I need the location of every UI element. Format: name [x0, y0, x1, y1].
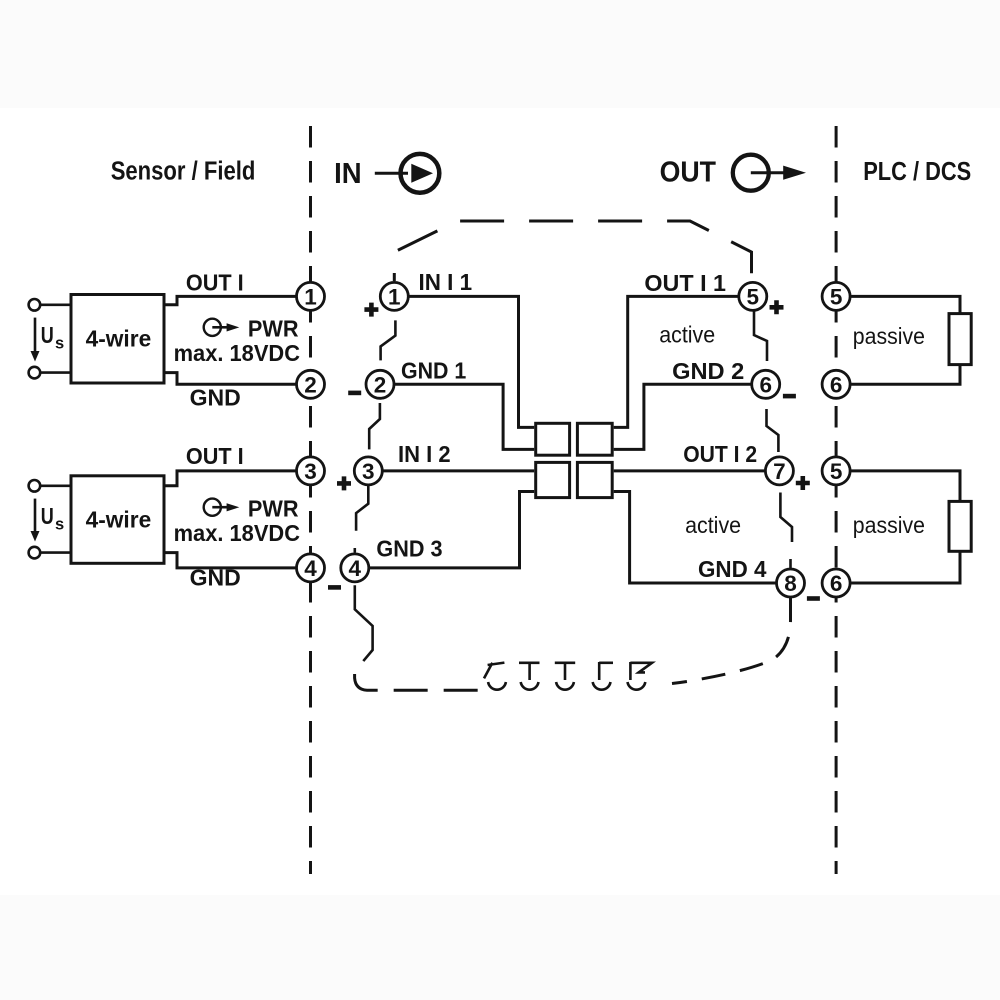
svg-text:6: 6 [759, 372, 772, 397]
svg-text:IN I 1: IN I 1 [419, 269, 473, 295]
svg-text:active: active [685, 512, 741, 538]
svg-text:1: 1 [388, 285, 401, 310]
wire OUT I 2 [614, 469, 766, 472]
polarity + at 5 [770, 300, 784, 314]
svg-text:5: 5 [830, 459, 843, 484]
svg-text:GND: GND [190, 385, 241, 411]
module dashed outline bottom right curve [672, 598, 791, 684]
svg-text:active: active [659, 322, 715, 348]
polarity - at 2 [348, 391, 361, 396]
DIP switch 4 [593, 662, 613, 690]
svg-text:4: 4 [304, 556, 317, 581]
passive loop 2 wires [850, 471, 960, 583]
svg-text:4: 4 [349, 556, 362, 581]
sensor block 1: 4-wire box [71, 295, 164, 384]
svg-text:4-wire: 4-wire [86, 507, 152, 533]
module squiggle 2-3 [369, 403, 380, 449]
svg-text:2: 2 [374, 372, 387, 397]
wire OUT I block1 [164, 296, 297, 304]
svg-text:OUT I: OUT I [186, 269, 244, 295]
svg-text:4-wire: 4-wire [86, 325, 152, 351]
OUT arrow symbol [733, 155, 806, 191]
svg-text:5: 5 [830, 285, 843, 310]
polarity - at 4 [328, 585, 341, 590]
terminal circle out 5 [739, 282, 767, 310]
terminal circle in 3 [354, 457, 382, 485]
terminal circle bottom [29, 547, 41, 559]
svg-text:GND 1: GND 1 [401, 357, 466, 383]
Us arrow [31, 499, 40, 542]
svg-text:passive: passive [853, 323, 925, 349]
svg-text:IN I 2: IN I 2 [398, 441, 451, 467]
terminal wires [40, 303, 71, 306]
wire GND 4 [614, 492, 777, 584]
wire GND block2 [164, 553, 297, 568]
svg-text:6: 6 [830, 372, 843, 397]
wire OUT I block2 [164, 471, 297, 486]
svg-text:3: 3 [362, 459, 375, 484]
module squiggle 7-8 [780, 493, 792, 543]
terminal circle plc 6b [822, 569, 850, 597]
svg-text:s: s [55, 335, 64, 353]
terminal circle out 7 [765, 457, 793, 485]
PWR icon block2 [204, 499, 240, 516]
svg-text:max. 18VDC: max. 18VDC [174, 340, 300, 366]
svg-text:5: 5 [747, 285, 760, 310]
svg-text:OUT I 2: OUT I 2 [683, 441, 757, 467]
terminal circle out 6 [752, 370, 780, 398]
svg-text:OUT I 1: OUT I 1 [644, 270, 726, 296]
svg-text:GND: GND [190, 565, 241, 591]
module squiggle below 4 [355, 585, 373, 661]
resistor 1 [949, 314, 971, 365]
terminal circle outer 3 [297, 457, 325, 485]
svg-text:PWR: PWR [248, 495, 299, 521]
DIP switch 5 [628, 662, 653, 690]
module squiggle below 8 [789, 559, 792, 569]
wire OUT I 1 [614, 296, 739, 427]
module squiggle 1-2 [381, 320, 396, 360]
svg-text:s: s [55, 516, 64, 534]
module squiggle 3-4 [355, 485, 369, 553]
dashed boundary line left [309, 126, 312, 874]
PWR icon block1 [204, 319, 240, 336]
polarity - at 8 [807, 596, 820, 601]
polarity + at 3 [337, 476, 351, 490]
svg-text:U: U [41, 322, 54, 348]
passive loop 1 wires [850, 296, 960, 384]
wire IN I 2 [382, 469, 534, 472]
sensor block 2: 4-wire box [71, 476, 164, 564]
svg-text:IN: IN [334, 158, 362, 190]
svg-text:GND 2: GND 2 [672, 358, 744, 384]
DIP switch 3 [555, 663, 575, 690]
wire IN I 1 [408, 296, 534, 427]
svg-text:OUT: OUT [660, 157, 717, 189]
dashed boundary line right [835, 126, 838, 874]
terminal wires [40, 484, 71, 487]
wire GND 1 [394, 384, 534, 449]
svg-text:7: 7 [773, 459, 786, 484]
module squiggle 5-6 [754, 311, 767, 361]
wire GND 2 [614, 384, 752, 449]
terminal circle in 4 [341, 554, 369, 582]
module dashed outline top [394, 221, 751, 282]
svg-text:GND 4: GND 4 [698, 556, 767, 582]
svg-text:PWR: PWR [248, 316, 299, 342]
terminal circle in 1 [380, 282, 408, 310]
svg-text:max. 18VDC: max. 18VDC [174, 520, 300, 546]
terminal circle outer 4 [297, 554, 325, 582]
polarity - at 6 [783, 394, 796, 399]
terminal circle plc 5b [822, 457, 850, 485]
terminal circle bottom [29, 367, 41, 379]
svg-text:OUT I: OUT I [186, 443, 244, 469]
terminal circle out 8 [777, 569, 805, 597]
isolation barrier symbol [536, 423, 613, 497]
terminal circle outer 2 [297, 370, 325, 398]
wire GND block1 [164, 373, 297, 385]
polarity + at 1 [364, 303, 378, 317]
terminal circle plc 6a [822, 370, 850, 398]
Us arrow [31, 318, 40, 362]
terminal circle top [29, 480, 41, 492]
svg-text:GND 3: GND 3 [376, 535, 442, 561]
svg-text:1: 1 [304, 285, 317, 310]
terminal circle in 2 [366, 370, 394, 398]
svg-text:passive: passive [853, 512, 925, 538]
svg-text:8: 8 [784, 571, 797, 596]
svg-text:PLC / DCS: PLC / DCS [863, 158, 971, 186]
svg-text:2: 2 [304, 372, 317, 397]
terminal circle top [29, 299, 41, 311]
wire GND 3 [369, 492, 534, 568]
IN arrow symbol [375, 154, 440, 193]
svg-text:Sensor / Field: Sensor / Field [111, 158, 256, 186]
DIP switch 2 [519, 663, 540, 690]
polarity + at 7 [796, 476, 810, 490]
resistor 2 [949, 501, 971, 551]
svg-text:3: 3 [304, 459, 317, 484]
terminal circle plc 5a [822, 282, 850, 310]
svg-text:U: U [41, 503, 54, 529]
DIP switch 1 [484, 663, 506, 690]
module dashed outline bottom left corner [355, 672, 478, 690]
module squiggle 6-7 [767, 409, 779, 452]
terminal circle outer 1 [297, 282, 325, 310]
svg-text:6: 6 [830, 571, 843, 596]
